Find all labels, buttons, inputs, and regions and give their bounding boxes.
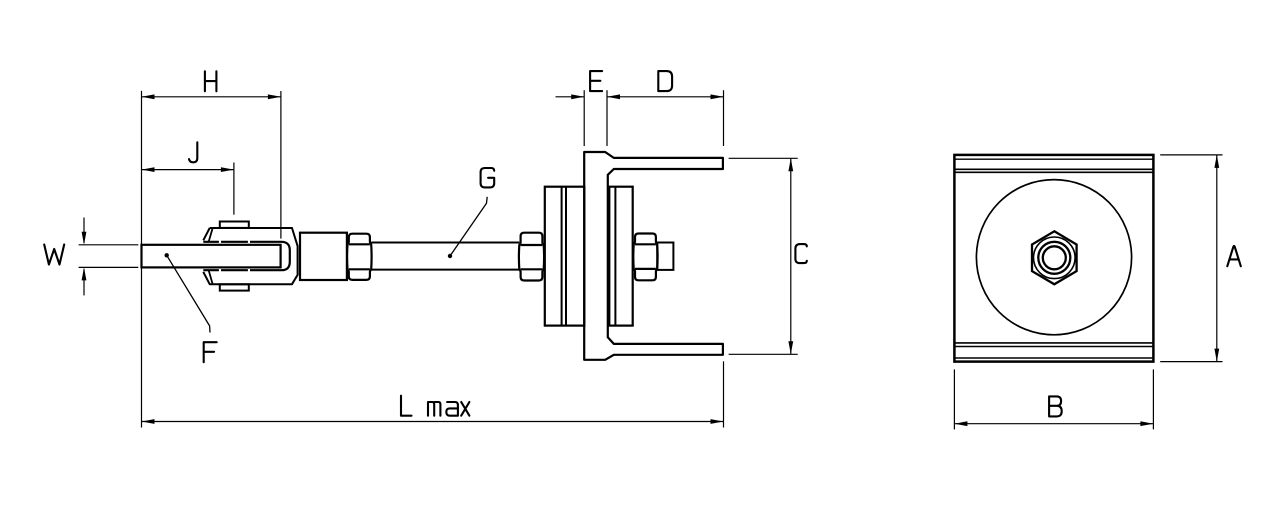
clevis inner chamfer lines [209, 228, 213, 284]
dimension line C [790, 158, 792, 354]
rod top edge [371, 242, 519, 244]
plate top line 2 [954, 168, 1153, 170]
pin head top [220, 222, 249, 228]
hex nut 3 [633, 234, 657, 281]
label J [189, 142, 197, 162]
extension line E right / D left [606, 90, 608, 146]
label D [658, 71, 672, 91]
extension line E left [583, 90, 585, 146]
extension line B left [953, 369, 955, 429]
label E [590, 71, 602, 91]
W arrow top [83, 218, 85, 244]
extension line A bottom [1160, 361, 1222, 363]
plate bottom line 1 [954, 342, 1153, 344]
extension line C bottom [729, 353, 798, 355]
U bracket channel [584, 152, 723, 360]
extension line C top [729, 157, 798, 159]
plate top line 3 [954, 171, 1153, 173]
base plate outline [954, 155, 1153, 362]
disc stack line 1 [561, 187, 563, 326]
nut chamfer circle [1034, 237, 1076, 279]
extension line D right top [723, 90, 725, 146]
leader G [448, 254, 452, 258]
hex nut 1 [347, 234, 372, 280]
plate bottom line 3 [954, 357, 1153, 359]
washer disc circle [976, 180, 1131, 335]
plate top line 1 [954, 158, 1153, 160]
extension line H right [280, 91, 282, 239]
bore circle [1043, 246, 1066, 269]
dimension line B [954, 423, 1153, 425]
dimension line D [607, 96, 724, 98]
extension line L max right [723, 361, 725, 427]
label G [481, 168, 495, 187]
rod bottom edge [371, 269, 519, 271]
label W [44, 245, 64, 265]
hex nut front [1032, 231, 1077, 284]
dimension line H [142, 96, 281, 98]
disc stack line 2 [565, 187, 567, 326]
extension line W bottom [79, 266, 139, 268]
label B [1049, 396, 1062, 416]
label C [795, 244, 806, 263]
extension line W top [79, 244, 139, 246]
clevis fork body [203, 228, 297, 284]
dimension line A [1216, 155, 1218, 362]
leader F [165, 253, 169, 257]
extension line B right [1152, 369, 1154, 429]
extension line A top [1160, 154, 1222, 156]
right washer disc stack [609, 187, 632, 326]
extension line left (H/J/L) [141, 91, 143, 428]
clevis slot outline [203, 242, 289, 270]
adjuster block [300, 233, 347, 280]
hex nut 2 [519, 233, 544, 281]
rod end stub [657, 243, 673, 270]
label L max [401, 396, 412, 416]
dimension line J [142, 169, 234, 171]
W arrow bottom [83, 269, 85, 295]
label F [204, 342, 217, 362]
plate bottom line 2 [954, 346, 1153, 348]
left washer disc stack [545, 187, 585, 326]
flat bar tongue [142, 245, 281, 268]
dimension line L max [142, 421, 724, 423]
right stack line [614, 187, 616, 326]
E outside arrow line [556, 96, 585, 98]
pin nut bottom [220, 284, 249, 290]
label H [205, 71, 217, 91]
label A [1227, 246, 1241, 266]
extension line J right [233, 163, 235, 215]
thread circle [1038, 242, 1070, 274]
